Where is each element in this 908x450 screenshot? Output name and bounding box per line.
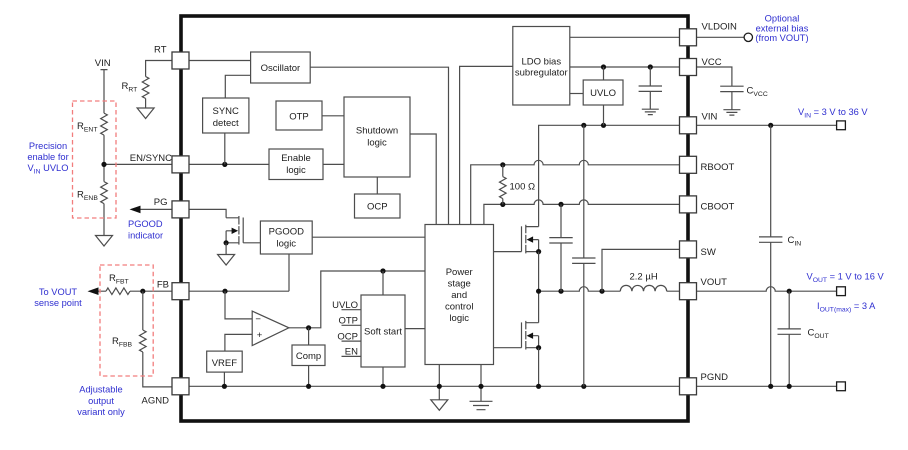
wire VREF to error amp non-inverting input — [225, 334, 252, 351]
node soft start on rail — [380, 384, 385, 389]
block Comp — [292, 345, 325, 366]
wire SW pin branch — [602, 249, 680, 291]
wire sync detect to oscillator — [225, 75, 250, 98]
svg-text:PG: PG — [154, 197, 168, 208]
IC module boundary — [181, 16, 688, 421]
block OTP — [276, 101, 322, 130]
wire PG external with arrow — [138, 208, 172, 210]
wire LDO to VLDOIN pin — [570, 36, 680, 38]
wire PGOOD FET gate to PGOOD logic — [243, 242, 260, 244]
terminal VLDOIN circle — [744, 33, 752, 41]
pin VIN — [680, 117, 697, 134]
wire PGND external — [697, 385, 837, 387]
svg-text:VCC: VCC — [702, 57, 722, 68]
wire enable logic to shutdown logic — [323, 163, 344, 165]
resistor 100 ohm — [502, 165, 504, 205]
block SYNC detect — [203, 98, 249, 133]
svg-text:subregulator: subregulator — [515, 68, 568, 79]
svg-text:2.2 µH: 2.2 µH — [630, 272, 658, 283]
svg-text:external bias: external bias — [756, 23, 809, 33]
svg-text:and: and — [451, 290, 467, 301]
svg-text:FB: FB — [157, 280, 169, 291]
wire PG pin to PGOOD FET drain — [189, 209, 226, 217]
wire CBOOT row with hops — [484, 200, 680, 225]
wire EN/SYNC external — [104, 163, 172, 165]
wire power stage ground stub 1 — [438, 365, 440, 400]
svg-text:SYNC: SYNC — [212, 106, 239, 117]
block LDO bias subregulator — [513, 27, 570, 106]
node EN divider junction — [101, 162, 106, 167]
node soft start junction — [380, 268, 385, 273]
terminal VIN square — [837, 121, 846, 130]
pin RT — [172, 52, 189, 69]
wire oscillator to power stage — [310, 67, 448, 224]
node UVLO top on VCC row — [601, 64, 606, 69]
svg-text:stage: stage — [448, 279, 471, 290]
wire EN/SYNC row — [189, 163, 269, 165]
svg-text:VIN = 3 V to 36 V: VIN = 3 V to 36 V — [798, 107, 868, 119]
svg-text:VLDOIN: VLDOIN — [702, 22, 738, 33]
svg-text:VREF: VREF — [212, 358, 238, 369]
wire LDO to VCC pin — [570, 66, 680, 68]
wire VIN source line — [101, 70, 108, 236]
wire comp node to Comp block — [308, 328, 310, 345]
svg-text:enable for: enable for — [27, 152, 68, 162]
block Shutdown logic — [344, 97, 410, 177]
svg-text:CBOOT: CBOOT — [701, 202, 735, 213]
node EN row junction — [222, 162, 227, 167]
resistor RRT — [142, 77, 149, 99]
svg-text:OCP: OCP — [367, 202, 388, 213]
wire RT to oscillator — [189, 60, 251, 62]
pin EN/SYNC — [172, 156, 189, 173]
node VIN bypass on rail — [581, 384, 586, 389]
svg-text:PGOOD: PGOOD — [269, 227, 305, 238]
pin PG — [172, 201, 189, 218]
capacitor COUT — [788, 291, 790, 386]
svg-text:CIN: CIN — [788, 235, 802, 247]
wire low-side drain to switch node — [538, 291, 540, 323]
svg-text:Power: Power — [446, 267, 473, 278]
svg-text:variant only: variant only — [77, 407, 125, 417]
svg-text:OTP: OTP — [338, 316, 358, 327]
svg-text:RT: RT — [154, 45, 167, 56]
wire power stage ground stub 2 — [480, 365, 482, 402]
wire shutdown logic to OCP — [376, 177, 378, 194]
ground below RRT — [137, 108, 154, 119]
wire UVLO column — [603, 67, 605, 125]
svg-text:Oscillator: Oscillator — [261, 63, 301, 74]
svg-text:Shutdown: Shutdown — [356, 126, 398, 137]
svg-text:PGND: PGND — [701, 372, 729, 383]
svg-text:RFBB: RFBB — [112, 336, 133, 348]
block OCP — [355, 194, 401, 218]
svg-text:LDO bias: LDO bias — [521, 57, 561, 68]
node stub1 on rail — [437, 384, 442, 389]
svg-text:logic: logic — [277, 239, 297, 250]
svg-text:AGND: AGND — [142, 396, 170, 407]
block UVLO — [583, 80, 623, 105]
block PGOOD logic — [260, 221, 312, 254]
svg-text:output: output — [88, 396, 114, 406]
svg-text:Soft start: Soft start — [364, 327, 402, 338]
terminal VOUT square — [837, 287, 846, 296]
earth ground below VCC cap — [642, 109, 659, 114]
svg-text:CVCC: CVCC — [747, 86, 768, 98]
wire high side gate lead — [494, 251, 522, 253]
wire VOUT external with hop — [697, 287, 837, 292]
wire soft start bottom — [382, 367, 384, 386]
node stub2 on rail — [478, 384, 483, 389]
pin PGND — [680, 378, 697, 395]
node FB divider junction — [140, 289, 145, 294]
wire low side gate lead — [494, 347, 522, 349]
svg-text:UVLO: UVLO — [590, 88, 616, 99]
ground below PGOOD FET — [218, 255, 235, 266]
pin FB — [172, 283, 189, 300]
svg-text:Precision: Precision — [29, 141, 67, 151]
capacitor CVCC external — [697, 67, 732, 110]
svg-text:COUT: COUT — [808, 328, 829, 340]
wire EN junction to sync detect — [224, 133, 226, 164]
node VIN bypass branch — [581, 123, 586, 128]
terminal PGND square — [837, 382, 846, 391]
capacitor VIN bypass — [583, 125, 585, 386]
wire shutdown logic to power stage — [410, 134, 436, 225]
svg-text:SW: SW — [701, 247, 716, 258]
wire AGND rail — [189, 385, 680, 387]
transistor low-side FET — [522, 321, 542, 350]
resistor RENT — [101, 113, 108, 135]
svg-text:PGOOD: PGOOD — [128, 219, 163, 229]
block Soft start — [361, 295, 405, 367]
svg-text:logic: logic — [286, 165, 306, 176]
inductor 2.2uH — [620, 285, 666, 291]
node cboot cap on switch row — [558, 289, 563, 294]
resistor RENB — [101, 182, 108, 204]
svg-text:IOUT(max) = 3 A: IOUT(max) = 3 A — [817, 301, 876, 313]
svg-text:RRT: RRT — [122, 81, 138, 93]
node CIN on PGND — [768, 384, 773, 389]
node VREF on rail — [222, 384, 227, 389]
svg-text:RBOOT: RBOOT — [701, 162, 735, 173]
block Enable logic — [269, 149, 323, 180]
soft start input stubs UVLO OTP OCP EN — [342, 310, 361, 357]
svg-text:logic: logic — [367, 138, 387, 149]
capacitor CIN — [770, 125, 772, 386]
wire FB to error amp inverting input — [225, 291, 252, 319]
node resistor bottom — [500, 202, 505, 207]
svg-text:Optional: Optional — [765, 14, 800, 24]
wire soft start top — [382, 271, 384, 295]
earth ground below power stage — [470, 401, 493, 409]
node COUT on PGND — [787, 384, 792, 389]
svg-text:logic: logic — [449, 313, 469, 324]
ground triangle below power stage — [431, 400, 448, 411]
svg-text:VIN UVLO: VIN UVLO — [28, 163, 69, 175]
pin VLDOIN — [680, 29, 697, 46]
svg-text:RENB: RENB — [77, 190, 98, 202]
svg-text:VIN: VIN — [95, 58, 111, 69]
wire VLDOIN external — [697, 36, 745, 38]
capacitor CBOOT bootstrap — [560, 204, 562, 291]
op-amp error amplifier — [252, 311, 289, 346]
wire PGOOD FET source to ground — [225, 243, 227, 255]
svg-text:To VOUT: To VOUT — [39, 287, 78, 297]
wire VIN external — [697, 124, 837, 126]
transistor high-side FET — [522, 225, 542, 254]
capacitor VCC internal — [649, 67, 651, 109]
node comp junction — [306, 325, 311, 330]
node CIN branch — [768, 123, 773, 128]
node COUT branch — [787, 289, 792, 294]
wire LDO to UVLO — [570, 93, 583, 95]
wire OTP to shutdown logic — [322, 115, 344, 117]
resistor RFBT — [106, 288, 130, 295]
svg-text:Adjustable: Adjustable — [79, 385, 122, 395]
wire PGOOD logic to FB row — [288, 254, 290, 291]
wire error amp output to comp node and power stage — [289, 271, 425, 328]
svg-text:RFBT: RFBT — [109, 273, 129, 285]
node SW branch — [599, 289, 604, 294]
svg-text:RENT: RENT — [77, 121, 97, 133]
ground below RENB — [96, 236, 113, 247]
svg-text:OCP: OCP — [337, 331, 358, 342]
svg-text:UVLO: UVLO — [332, 300, 358, 311]
pin AGND — [172, 378, 189, 395]
wire Comp block to AGND rail — [308, 366, 310, 387]
pin SW — [680, 241, 697, 258]
svg-text:Comp: Comp — [296, 351, 321, 362]
svg-text:VIN: VIN — [702, 112, 718, 123]
svg-text:EN/SYNC: EN/SYNC — [130, 153, 172, 164]
wire RT external — [146, 61, 172, 109]
svg-text:OTP: OTP — [289, 112, 309, 123]
svg-text:−: − — [255, 314, 261, 325]
earth ground below CVCC — [723, 110, 740, 115]
block Oscillator — [251, 52, 311, 83]
svg-text:Enable: Enable — [281, 153, 311, 164]
svg-text:detect: detect — [213, 118, 239, 129]
pin CBOOT — [680, 196, 697, 213]
block Power stage and control logic — [425, 225, 494, 365]
block VREF — [207, 351, 243, 372]
node FB row junction — [222, 289, 227, 294]
svg-text:indicator: indicator — [128, 231, 163, 241]
svg-text:(from VOUT): (from VOUT) — [755, 33, 808, 43]
node VCC cap on VCC row — [648, 64, 653, 69]
feedback divider dashed outline — [100, 265, 153, 376]
wire PGOOD logic to power stage — [312, 236, 425, 238]
wire VIN row to high-side drain — [539, 125, 680, 226]
wire RBOOT row with hops — [471, 160, 680, 224]
wire low-side source to ground rail — [538, 348, 540, 387]
wire FB row internal — [189, 290, 289, 292]
node resistor top — [500, 162, 505, 167]
wire switch node row with hop — [539, 287, 680, 292]
wire soft start to power stage — [405, 328, 425, 330]
svg-text:100 Ω: 100 Ω — [510, 182, 536, 193]
svg-text:+: + — [257, 330, 263, 341]
svg-text:VOUT: VOUT — [701, 277, 728, 288]
svg-text:VOUT = 1 V to 16 V: VOUT = 1 V to 16 V — [807, 272, 885, 284]
node switch junction — [536, 289, 541, 294]
wire LDO supply to power stage — [460, 66, 513, 224]
wire high-side source to switch node — [538, 252, 540, 292]
node UVLO branch on VIN — [601, 123, 606, 128]
transistor PGOOD open-drain FET — [224, 216, 244, 245]
enable divider dashed outline — [73, 101, 117, 218]
node cboot cap top — [558, 202, 563, 207]
resistor RFBB — [143, 291, 172, 387]
node Comp on rail — [306, 384, 311, 389]
svg-text:EN: EN — [345, 347, 358, 358]
svg-text:sense point: sense point — [34, 298, 82, 308]
pin RBOOT — [680, 156, 697, 173]
wire to VOUT sense point with arrow — [96, 290, 172, 292]
wire VREF to AGND rail — [223, 372, 225, 386]
svg-text:control: control — [445, 302, 474, 313]
pin VOUT — [680, 283, 697, 300]
node low-side source on rail — [536, 384, 541, 389]
pin VCC — [680, 59, 697, 76]
